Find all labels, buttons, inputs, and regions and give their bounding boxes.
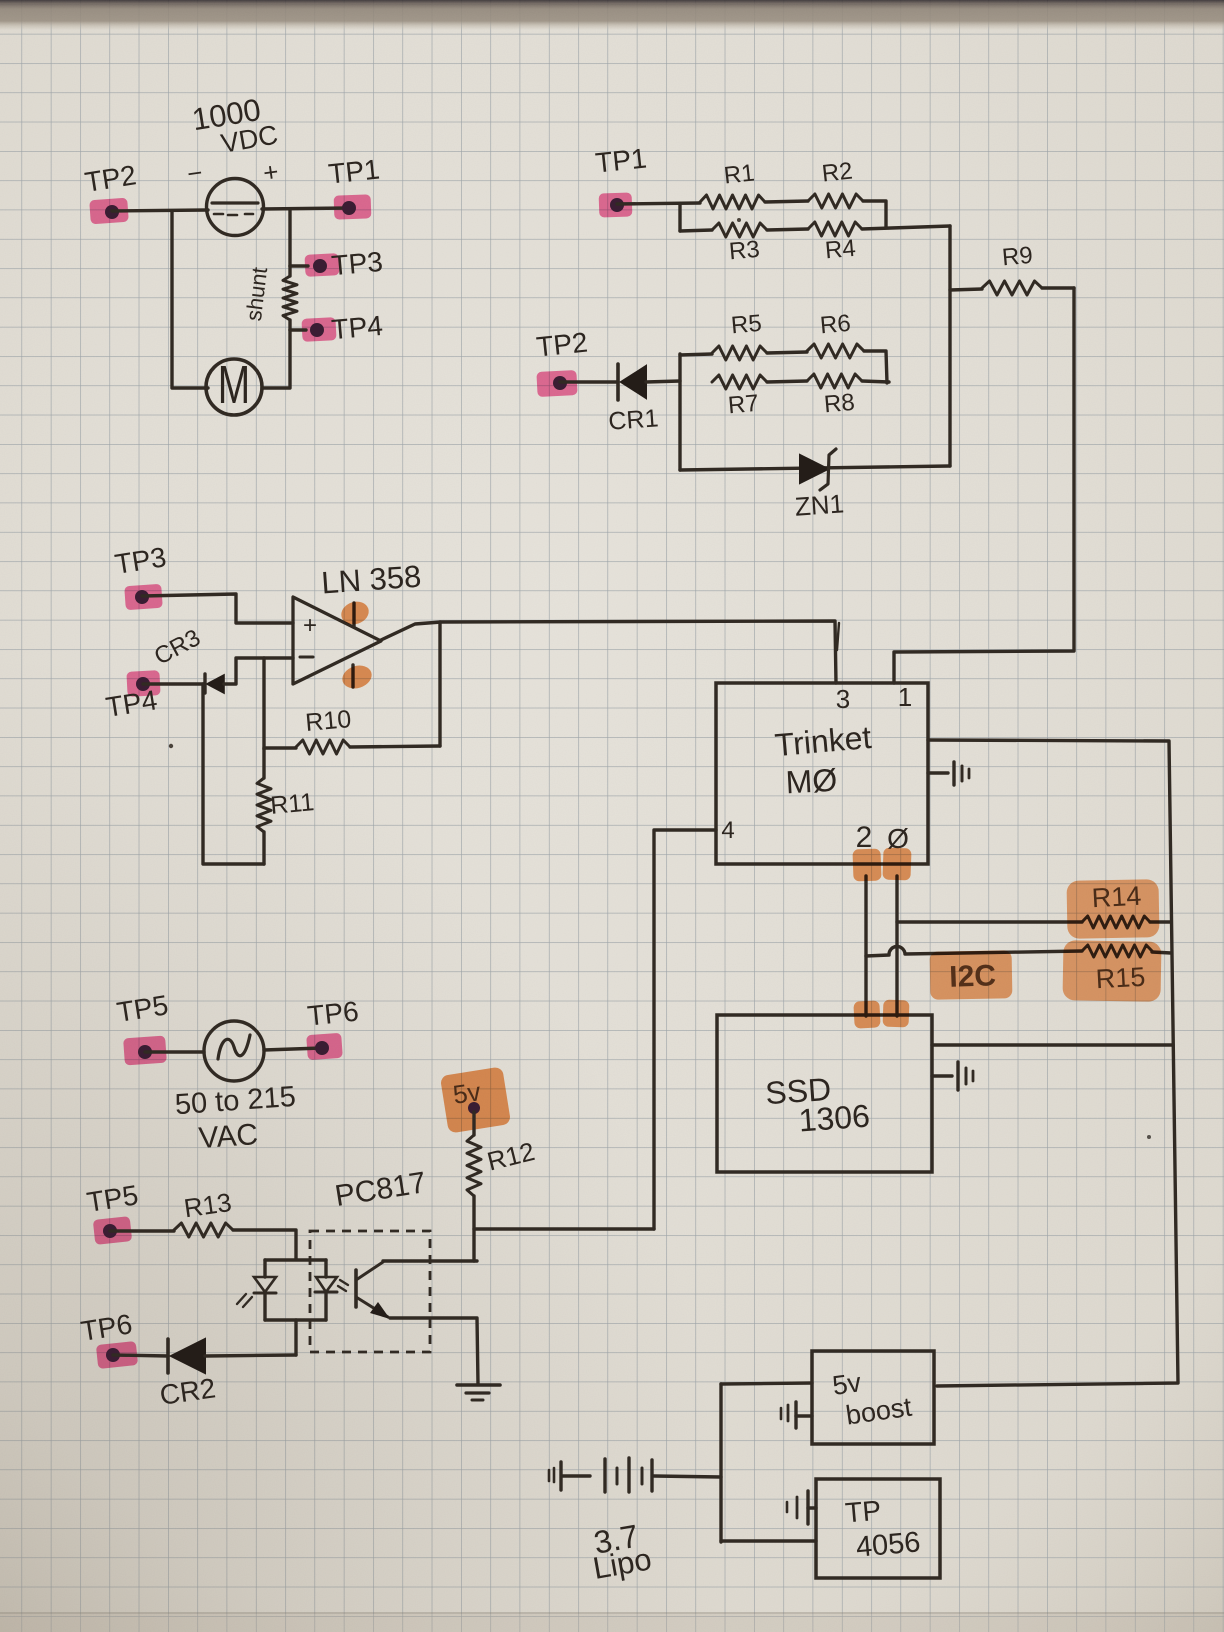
svg-text:4: 4 (721, 817, 734, 844)
label TP 4056 (844, 1495, 922, 1564)
label 5v boost (831, 1367, 914, 1430)
wire pin 0 down (895, 876, 898, 1016)
resistor R14 (1082, 916, 1150, 928)
wire R3 row start (680, 230, 712, 231)
zener diode ZN1 (800, 449, 836, 490)
svg-text:TP1: TP1 (327, 153, 381, 189)
ground (opto emitter) (457, 1385, 500, 1400)
connector (5v boost input) (781, 1402, 812, 1428)
svg-text:R4: R4 (824, 235, 857, 265)
wire branch split (678, 204, 681, 231)
highlight pin 0 pad (882, 848, 911, 881)
resistor R6 (807, 344, 864, 358)
connector (TP4056 input) (787, 1491, 816, 1524)
svg-text:R2: R2 (821, 158, 854, 188)
test point pad TP2 (divider) (536, 370, 577, 397)
wire LED top rail (265, 1258, 326, 1261)
node TP1 dot (342, 201, 356, 215)
LED D2 (opto input) (315, 1260, 348, 1320)
ground connector (Trinket) (928, 762, 969, 785)
wire TP2 to source (112, 210, 208, 211)
wire LED rail down to CR2 (294, 1320, 297, 1355)
wire battery to bus (654, 1476, 721, 1477)
motor M (circle) (206, 354, 262, 415)
svg-text:R15: R15 (1095, 962, 1146, 995)
ink speck below R1 (737, 218, 741, 222)
svg-text:3: 3 (836, 684, 850, 714)
wire R15 row with hop (866, 946, 1082, 956)
ink speck near rail (1147, 1135, 1151, 1139)
label 1000 VDC (190, 92, 281, 159)
wire TP5 to R13 (110, 1229, 174, 1232)
node TP3 dot (135, 590, 149, 604)
svg-text:R10: R10 (304, 705, 352, 737)
op-amp U1 LN358 triangle (293, 597, 381, 684)
node 5V dot (468, 1102, 480, 1114)
wire R6 corner down (864, 351, 887, 383)
resistor shunt (283, 276, 297, 320)
svg-text:TP2: TP2 (535, 326, 589, 362)
node TP2 dot (105, 205, 119, 219)
wire R5 row start (680, 354, 712, 355)
svg-text:MØ: MØ (785, 762, 838, 801)
wire right branch to shunt (288, 209, 291, 266)
svg-text:R11: R11 (269, 788, 315, 820)
op-amp pin stub top (352, 603, 355, 626)
highlight op-amp pin stub bottom (339, 662, 374, 692)
test point pad TP4 (op-amp) (126, 670, 160, 697)
label I2C highlight (930, 950, 1013, 999)
svg-text:R8: R8 (823, 389, 856, 419)
node TP5 dot (103, 1224, 117, 1238)
wire TP4 tick (290, 328, 306, 331)
diode CR2 (168, 1339, 205, 1373)
wire divider node vertical (948, 226, 951, 466)
node TP5 dot (138, 1045, 152, 1059)
test point pad TP6 (AC source) (306, 1033, 343, 1060)
phototransistor Q1 (356, 1262, 390, 1319)
svg-text:TP3: TP3 (330, 246, 384, 281)
highlight op-amp pin stub top (338, 598, 371, 628)
ink speck (169, 744, 173, 748)
test point pad TP3 (shunt) (304, 253, 339, 277)
wire emitter to ground (390, 1318, 478, 1384)
resistor R4 (808, 222, 862, 236)
wire TP3 to +input (142, 594, 293, 623)
wire R9 to rail (1042, 286, 1074, 289)
highlight pin 2 pad (852, 849, 881, 882)
node TP4 dot (310, 323, 324, 337)
ground connector (SSD1306) (932, 1062, 973, 1090)
resistor R13 (174, 1223, 233, 1237)
label 50 to 215 VAC (174, 1081, 297, 1155)
wire rail down to pin1 (894, 288, 1074, 683)
wire collector to R12 node (383, 1259, 477, 1262)
wire junction down from CR3 (203, 684, 264, 864)
wire R8 to corner (862, 381, 889, 382)
AC source (circle with sine) (204, 1021, 264, 1081)
svg-text:R6: R6 (819, 310, 852, 340)
svg-text:TP4: TP4 (330, 310, 384, 345)
wire -input to R10/R11 node (262, 658, 265, 749)
test point pad TP1 (top-left) (334, 194, 372, 219)
svg-text:TP1: TP1 (594, 142, 648, 178)
svg-text:R9: R9 (1001, 242, 1034, 272)
wire LED bottom rail (265, 1318, 326, 1321)
wire battery bus vertical (719, 1384, 722, 1542)
test point pad TP1 (divider) (599, 192, 633, 217)
svg-text:R5: R5 (730, 310, 763, 340)
test point pad TP3 (op-amp) (124, 584, 163, 611)
wire retrace at pin3 corner (837, 623, 839, 650)
label SSD 1306 (764, 1071, 871, 1139)
wire block left vertical (678, 354, 681, 470)
svg-text:M: M (218, 354, 250, 415)
wire R5 to R6 (767, 352, 807, 353)
module TP4056 (box) (816, 1479, 940, 1578)
test point pad TP5 (AC source) (123, 1036, 167, 1066)
wire TP3 tick (290, 264, 308, 267)
resistor R10 (264, 740, 440, 754)
svg-text:TP6: TP6 (306, 995, 360, 1031)
battery 3.7 Lipo (549, 1458, 652, 1492)
IC U2 Trinket M0 (box) (716, 683, 928, 864)
wire zener bottom row (680, 466, 950, 470)
highlight 5V (440, 1066, 511, 1133)
svg-text:R14: R14 (1091, 881, 1142, 914)
wire pin4 to R12 node (654, 830, 716, 1229)
svg-text:1: 1 (898, 682, 912, 712)
svg-text:CR1: CR1 (608, 404, 660, 435)
svg-text:R1: R1 (723, 160, 756, 190)
label 3.7 Lipo (590, 1518, 654, 1586)
svg-text:+: + (303, 612, 317, 639)
voltage source polarity marks (185, 156, 280, 189)
svg-text:LN 358: LN 358 (320, 559, 422, 601)
svg-text:1306: 1306 (797, 1098, 871, 1139)
node TP3 dot (313, 259, 327, 273)
resistor R15 (1082, 945, 1152, 957)
wire pin 2 down (864, 876, 867, 1016)
node TP6 dot (106, 1348, 120, 1362)
svg-text:R3: R3 (728, 236, 761, 266)
svg-text:ZN1: ZN1 (794, 488, 845, 521)
highlight pad lower 0 (883, 1000, 910, 1028)
highlight pad lower 2 (853, 1000, 880, 1028)
wire CR1 to block (646, 381, 680, 382)
resistor R11 (257, 749, 271, 864)
wire CR2 to LED rail (205, 1355, 296, 1356)
module 5v boost (box) (812, 1351, 934, 1444)
wire op-amp output to pin3 (381, 621, 836, 683)
wire left branch down to motor (172, 211, 208, 388)
op-amp pin stub bottom (351, 665, 354, 687)
svg-text:4056: 4056 (855, 1526, 922, 1564)
node TP2 dot (553, 376, 567, 390)
svg-text:R7: R7 (727, 390, 760, 420)
wire source to TP1 (262, 208, 349, 209)
wire R4 to node (862, 226, 950, 229)
wire SSD1306 right to 5V rail (932, 1043, 1173, 1046)
LED D1 (external) (237, 1260, 276, 1320)
op-amp input signs (300, 612, 317, 657)
node TP4 dot (136, 677, 150, 691)
wire TP4 through CR3 to -input (143, 682, 205, 685)
resistor R1 (700, 195, 765, 209)
wire R13 to LED branch (233, 1230, 296, 1259)
wire bus to 5v boost (721, 1383, 812, 1384)
node TP6 dot (315, 1041, 329, 1055)
wire R14 row (pin0 to rail) (897, 920, 1082, 923)
wire TP2 to CR1 (560, 380, 618, 383)
wire feedback to output (438, 622, 441, 746)
resistor R2 (808, 194, 863, 208)
test point pad TP4 (shunt) (301, 317, 336, 342)
wire TP6 to CR2 (113, 1355, 168, 1356)
resistor R3 (712, 223, 767, 237)
wire shunt to motor (262, 330, 290, 388)
wire R9 branch (950, 289, 982, 290)
wire bus to TP4056 (721, 1539, 816, 1542)
wire R3 to R4 (767, 229, 808, 230)
wire R7 to R8 (767, 381, 807, 382)
svg-text:5v: 5v (831, 1367, 864, 1401)
resistor R7 (712, 375, 767, 389)
resistor R12 (467, 1112, 481, 1261)
wire R2 corner (863, 201, 886, 227)
wire AC source to TP6 (264, 1048, 322, 1050)
highlight R14 R15 (1067, 879, 1160, 939)
svg-text:I2C: I2C (949, 959, 997, 994)
node TP1 dot (610, 198, 624, 212)
resistor R8 (807, 374, 862, 388)
diode CR1 (618, 364, 646, 400)
IC U3 SSD1306 (box) (717, 1015, 932, 1172)
test point pad TP5 (opto) (93, 1216, 132, 1245)
wire Trinket right to 5V rail (928, 740, 1178, 1386)
wire R1 to R2 (765, 201, 808, 202)
wire R12 node to pin4 rail (474, 1227, 654, 1230)
resistor R5 (712, 346, 767, 360)
test point pad TP2 (top-left) (89, 198, 129, 225)
label Trinket M0 (773, 719, 872, 800)
optocoupler PC817 dashed box (310, 1231, 430, 1352)
wire TP5 to AC source (145, 1050, 204, 1053)
svg-text:TP: TP (844, 1495, 882, 1529)
voltage source 1000 VDC (circle) (207, 179, 264, 236)
resistor R9 (982, 281, 1042, 295)
wire TP1 to R1 branch (617, 203, 700, 204)
test point pad TP6 (opto) (96, 1341, 138, 1369)
diode CR3 (205, 674, 224, 693)
svg-text:VAC: VAC (198, 1118, 260, 1155)
